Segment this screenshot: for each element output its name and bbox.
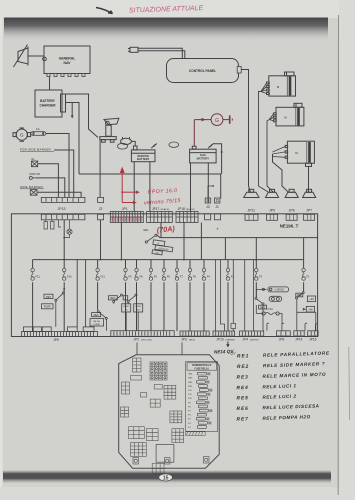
wire bundle motor1 to JP9	[259, 83, 269, 192]
svg-text:RE1: RE1	[144, 228, 150, 232]
svg-text:JP13: JP13	[58, 207, 66, 211]
wires from strips down to bus	[63, 220, 65, 260]
red annotation: vertical arrow near JP1	[122, 170, 137, 203]
main bus	[33, 259, 304, 261]
svg-text:JP9: JP9	[269, 208, 275, 212]
connector JP3	[180, 331, 209, 336]
svg-text:LIGHT: LIGHT	[135, 306, 142, 308]
wire RE4 drop to JP2	[114, 303, 127, 331]
handwritten relay list line RE4	[236, 383, 296, 391]
svg-text:RE5: RE5	[236, 395, 248, 401]
svg-text:G: G	[20, 133, 24, 138]
battery charger	[35, 90, 66, 117]
wire bus drop to JP5 tier boxes	[77, 260, 85, 327]
wire side marker label to JP13	[54, 150, 74, 197]
control panel	[167, 59, 239, 83]
svg-text:JP5: JP5	[53, 338, 59, 342]
svg-text:(WHITE): (WHITE)	[250, 339, 259, 341]
side marker lamp icon	[30, 190, 37, 196]
pcb outline	[119, 355, 220, 468]
relay RE4	[109, 294, 131, 312]
svg-text:F11: F11	[101, 274, 106, 278]
wire RE7 drop to JP5	[55, 301, 57, 327]
service battery	[131, 144, 156, 162]
connector JP2	[111, 331, 174, 337]
pcb mount hole 3	[204, 457, 210, 464]
fuse F3	[255, 260, 257, 298]
pcb connector grid J	[131, 443, 147, 457]
svg-text:J2: J2	[99, 207, 103, 211]
svg-text:JP6: JP6	[279, 338, 285, 342]
svg-text:15: 15	[163, 475, 169, 481]
svg-text:RE7: RE7	[236, 416, 248, 422]
connector J2 (external)	[98, 197, 104, 202]
svg-text:RE3: RE3	[236, 374, 248, 380]
svg-text:JP11: JP11	[248, 208, 256, 212]
JP14-JP15 bridge wire	[297, 312, 316, 331]
pcb connector grid K	[146, 429, 158, 441]
relay RE3	[255, 297, 267, 313]
wire control panel to JP11	[241, 70, 250, 193]
pcb label box A2	[131, 376, 142, 381]
connector JP15	[308, 331, 318, 336]
handwritten relay list line RE3	[236, 372, 326, 381]
fuse F7	[176, 260, 178, 331]
svg-text:BILGE: BILGE	[93, 321, 100, 323]
svg-text:JP1: JP1	[122, 207, 128, 211]
motor 3 fan wires	[273, 147, 286, 158]
svg-text:FOR SIDE MARKER: FOR SIDE MARKER	[20, 148, 51, 152]
svg-text:BATTERY: BATTERY	[137, 157, 150, 161]
wire charger to pump (via right)	[66, 94, 99, 138]
svg-text:(BLACK): (BLACK)	[186, 208, 195, 211]
page edge line right	[337, 15, 339, 495]
connector JP10	[213, 331, 235, 336]
pcb relay outline M	[156, 445, 174, 463]
svg-text:QV: QV	[230, 351, 236, 355]
red ticks on JP1 pins	[112, 217, 142, 222]
pcb connector grid H	[170, 411, 182, 423]
svg-text:JP18: JP18	[178, 207, 185, 211]
wire motor to JP13	[36, 178, 65, 198]
pcb connector grid C	[122, 382, 130, 394]
wire side marker to JP13	[37, 192, 81, 197]
small hook wires above JP6/JP14/JP15	[267, 323, 318, 331]
fuse F5	[150, 260, 152, 331]
pcb connector grid I	[129, 427, 145, 439]
pcb small box B2	[154, 385, 162, 390]
wire RE3 drop to JP4	[262, 305, 264, 331]
motor unit 1	[267, 72, 296, 96]
relay RE2	[296, 292, 305, 331]
fuse F6b	[189, 260, 191, 331]
pcb connector grid N	[152, 464, 164, 474]
svg-text:(BLACK): (BLACK)	[161, 208, 170, 211]
margin stroke right of notes	[348, 347, 351, 420]
pcb connector grid D	[121, 407, 129, 417]
motor unit 3	[285, 141, 314, 166]
fuse F9	[125, 260, 127, 331]
J2 internal square	[98, 214, 104, 220]
legend footer hatched box	[186, 432, 206, 436]
svg-text:B+: B+	[32, 157, 36, 161]
wire horn to general nav	[28, 55, 44, 57]
handwritten relay list line RE6	[236, 403, 319, 412]
svg-text:JP2: JP2	[134, 338, 140, 342]
fuse F4	[203, 260, 205, 331]
fuse F8	[136, 260, 138, 331]
relay RE7	[63, 288, 65, 290]
pcb small box F2	[141, 393, 147, 398]
small fuse symbols under JP13 strip	[44, 220, 54, 229]
svg-text:0.5A: 0.5A	[268, 307, 274, 311]
+48 box lower	[306, 306, 314, 312]
svg-text:PUMP: PUMP	[44, 306, 51, 309]
wire lamp to JP13	[38, 164, 59, 198]
handwritten relay list line RE7	[236, 414, 310, 422]
pcb mount hole 1	[133, 458, 139, 465]
long wire y174 to J1	[79, 174, 221, 199]
pcb connector grid F	[150, 399, 160, 407]
svg-text:RE4: RE4	[236, 385, 248, 391]
J1 internal square	[214, 214, 220, 220]
pcb connector grid E	[164, 385, 176, 399]
JP18 internal strip	[176, 212, 198, 223]
wire nav to charger	[49, 77, 51, 91]
wire bundle motor2 to JP9	[267, 114, 274, 193]
handwritten relay list line RE2	[237, 361, 325, 370]
svg-text:RE6: RE6	[94, 313, 100, 317]
ammeter G with fuse 1A	[13, 128, 31, 141]
general nav pins	[47, 74, 85, 77]
JP11 stub on board	[245, 214, 258, 220]
svg-text:(RED): (RED)	[189, 339, 195, 341]
control panel plug	[128, 47, 138, 52]
svg-text:RE2: RE2	[297, 294, 302, 297]
JP1 internal strip (two rows)	[110, 212, 143, 223]
wire motor3 to JP8	[273, 154, 289, 192]
fuse F12	[32, 260, 34, 332]
wire RE5 drop to JP2	[128, 303, 138, 331]
bottom scan band	[3, 470, 331, 484]
hand drawn ammeter circle (red pen)	[194, 114, 232, 147]
top scan band	[4, 18, 328, 42]
svg-text:SIDE MARKER: SIDE MARKER	[20, 185, 44, 189]
svg-text:FUSE RELAY: FUSE RELAY	[195, 367, 210, 370]
control panel right pin	[237, 67, 241, 74]
svg-text:JP8: JP8	[289, 208, 295, 212]
lamp symbol under JP13	[64, 220, 72, 238]
pcb mount hole 2	[165, 458, 171, 465]
JP17 internal strip	[147, 212, 173, 223]
svg-text:RE2: RE2	[237, 364, 249, 370]
handwritten relay list line RE5	[236, 394, 296, 402]
wires from JP2/JP3 to pcb	[136, 343, 138, 355]
connector J1 (external)	[214, 198, 220, 203]
fuse F6	[163, 260, 165, 331]
general nav unit	[43, 46, 90, 74]
handwritten relay list line RE1	[237, 350, 330, 359]
arrow below JP10	[227, 342, 229, 346]
svg-text:J1: J1	[215, 205, 219, 209]
service battery wires down	[134, 162, 150, 212]
indicator pill	[269, 296, 282, 301]
pcb connector grid B	[150, 362, 167, 380]
motor unit 2	[274, 103, 304, 126]
svg-text:NAV: NAV	[64, 61, 72, 65]
trapezoid connector JP7	[303, 189, 316, 197]
svg-text:BATTERY: BATTERY	[40, 99, 56, 103]
small pump oval	[121, 137, 132, 144]
pcb legend table	[186, 362, 218, 432]
extra verticals to JP10/JP4	[215, 260, 217, 331]
macerator pump icon	[100, 118, 119, 142]
svg-text:RE6: RE6	[236, 406, 248, 412]
svg-text:RE7: RE7	[46, 295, 52, 299]
JP9 stub on board	[267, 214, 278, 220]
wire fuse to JP13	[46, 134, 69, 198]
wire pump base to J2	[99, 140, 101, 198]
svg-text:G: G	[215, 118, 219, 124]
wire charger to J1 bus	[66, 103, 80, 175]
fuse F11	[97, 260, 99, 310]
svg-text:1A: 1A	[36, 127, 40, 131]
connector J3 (external)	[205, 198, 211, 203]
svg-text:JP3: JP3	[181, 338, 187, 342]
svg-text:(YELLOW): (YELLOW)	[141, 339, 152, 341]
JP13 internal strip	[41, 214, 85, 220]
pen slash mark	[96, 8, 113, 14]
J3 internal square	[205, 214, 211, 220]
gas battery wires down	[191, 163, 209, 212]
connector JP14	[294, 331, 304, 336]
svg-text:F10: F10	[67, 274, 72, 278]
svg-text:0-28VDC: 0-28VDC	[275, 289, 285, 292]
fuse F1	[303, 260, 305, 292]
svg-text:RE4: RE4	[110, 296, 116, 300]
fuse F10	[63, 260, 65, 332]
wire oval to service battery	[131, 141, 135, 146]
fuse F2	[227, 260, 229, 331]
legend table rows	[188, 372, 212, 429]
svg-text:J3: J3	[206, 205, 210, 209]
wire motor3 tab to JP7	[308, 166, 310, 192]
svg-text:CHARGER: CHARGER	[39, 104, 56, 108]
trapezoid connector JP9	[266, 189, 279, 197]
gas battery	[190, 143, 217, 163]
svg-text:JP7: JP7	[306, 208, 312, 212]
page number oval	[159, 474, 173, 481]
wire RE1 to right edge	[157, 235, 318, 238]
svg-text:BATTERY: BATTERY	[197, 156, 210, 160]
relay RE6	[90, 310, 107, 331]
horn / fluxgate icon	[14, 45, 29, 68]
svg-text:MOTOR: MOTOR	[30, 172, 40, 176]
svg-text:JP10: JP10	[217, 338, 224, 342]
svg-text:LIGHT: LIGHT	[123, 306, 130, 308]
connector JP6	[277, 331, 291, 336]
JP7 stub on board	[304, 214, 315, 220]
relay RE5	[123, 294, 143, 312]
wire J3 up	[208, 186, 213, 198]
svg-text:OUT: OUT	[136, 309, 141, 311]
svg-text:CONTROL PANEL: CONTROL PANEL	[189, 69, 216, 73]
connector JP4	[240, 331, 264, 336]
svg-text:+48: +48	[309, 297, 314, 301]
pcb connector grid L	[172, 429, 184, 443]
svg-text:+48: +48	[308, 308, 313, 312]
JP8 stub on board	[286, 214, 297, 220]
svg-text:JP14: JP14	[295, 338, 302, 342]
voltmeter 0-28VDC	[256, 287, 288, 298]
svg-text:JP4: JP4	[243, 338, 249, 342]
svg-text:RE1: RE1	[237, 353, 249, 359]
trapezoid connector JP8	[285, 189, 298, 197]
connector JP13 (external strip)	[41, 197, 85, 202]
svg-text:JP17: JP17	[152, 207, 159, 211]
pcb connector grid A	[133, 358, 142, 372]
svg-text:(GREEN): (GREEN)	[226, 339, 236, 341]
svg-text:+: +	[216, 227, 219, 232]
svg-text:NE196_T: NE196_T	[280, 224, 299, 229]
svg-text:F12: F12	[36, 274, 41, 278]
service battery KDN oval	[118, 143, 128, 149]
svg-text:INTERMOTOR LD: INTERMOTOR LD	[192, 365, 211, 367]
trapezoid connector JP11	[244, 189, 259, 197]
gas battery terminal wire to J1 drop	[214, 144, 222, 174]
svg-text:JP15: JP15	[309, 338, 316, 342]
svg-text:PUMP: PUMP	[94, 324, 101, 326]
twisted pair wires to control panel	[138, 48, 185, 58]
connector JP5	[22, 327, 98, 337]
+48 box upper	[307, 296, 315, 302]
wire charger drop arrow	[71, 103, 73, 117]
svg-text:(70A): (70A)	[156, 224, 175, 235]
gas battery KDN oval	[169, 142, 179, 147]
